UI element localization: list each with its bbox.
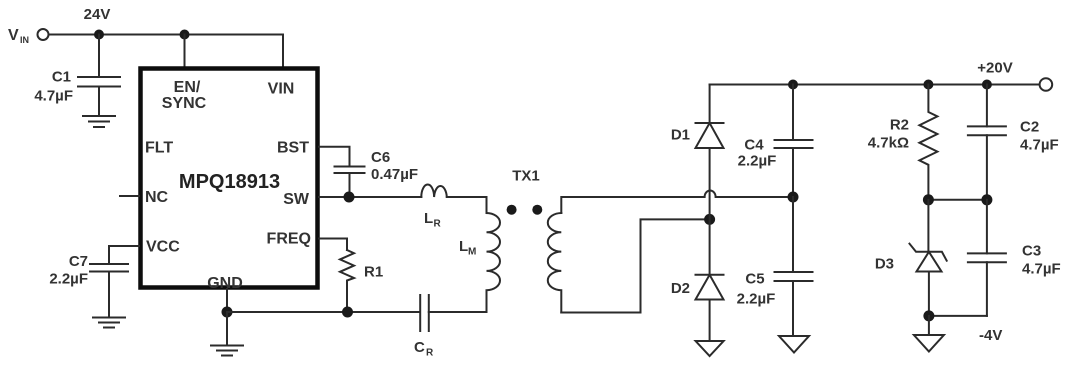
svg-text:D1: D1 <box>671 127 690 144</box>
svg-text:C3: C3 <box>1022 243 1041 260</box>
capacitor C1 <box>78 35 120 116</box>
svg-text:D3: D3 <box>875 256 894 273</box>
svg-text:D2: D2 <box>671 280 690 297</box>
svg-text:VCC: VCC <box>146 239 180 256</box>
svg-text:0.47µF: 0.47µF <box>371 166 418 183</box>
junction SW/C6 <box>344 192 355 203</box>
capacitor C4 <box>775 85 813 198</box>
junction D3/C3/-4V <box>923 310 934 321</box>
capacitor C6 <box>335 167 365 198</box>
svg-text:SW: SW <box>283 191 310 208</box>
junction rail/C4 <box>788 80 798 90</box>
terminal VIN input <box>38 29 49 40</box>
junction EN/SYNC tap <box>180 30 190 40</box>
svg-text:+20V: +20V <box>977 60 1012 77</box>
zener diode D3 <box>910 244 947 272</box>
phase dot secondary <box>532 205 542 215</box>
svg-text:TX1: TX1 <box>512 168 540 185</box>
pin label EN/SYNC <box>162 79 207 112</box>
svg-text:2.2µF: 2.2µF <box>738 153 777 170</box>
svg-text:EN/: EN/ <box>174 79 201 96</box>
svg-text:IN: IN <box>20 35 29 45</box>
wire -4V link <box>929 315 987 317</box>
junction GND node <box>222 307 233 318</box>
wire VCC <box>109 246 139 264</box>
junction R2/D3 <box>923 194 934 205</box>
svg-text:R: R <box>434 219 442 230</box>
capacitor C7 <box>90 264 128 317</box>
svg-text:R2: R2 <box>890 117 909 134</box>
svg-text:VIN: VIN <box>268 81 295 98</box>
svg-text:C2: C2 <box>1020 119 1039 136</box>
capacitor C5 <box>775 197 813 336</box>
wire SW to LR <box>319 196 421 198</box>
wire input rail <box>49 34 284 36</box>
wire D2 anode down <box>709 300 711 342</box>
resistor R1 <box>340 250 354 312</box>
svg-text:4.7µF: 4.7µF <box>1020 137 1059 154</box>
capacitor C2 <box>968 85 1006 200</box>
svg-text:C4: C4 <box>744 137 764 154</box>
junction C4/C5/secondary <box>788 192 799 203</box>
capacitor C3 <box>968 200 1006 316</box>
label LR <box>424 210 442 230</box>
label CR <box>414 339 434 359</box>
ground under GND pin <box>211 312 243 356</box>
svg-text:C7: C7 <box>69 253 88 270</box>
svg-text:R: R <box>426 348 434 359</box>
svg-text:V: V <box>8 27 19 44</box>
wire NC stub <box>120 195 139 197</box>
junction secondary to D1/D2 node <box>704 214 715 225</box>
junction rail/C2 <box>982 80 992 90</box>
op-amp U1 MPQ18913 IC body <box>141 69 318 288</box>
svg-text:2.2µF: 2.2µF <box>737 291 776 308</box>
ground under C1 <box>83 116 115 127</box>
svg-text:-4V: -4V <box>979 327 1002 344</box>
ground arrow at -4V <box>914 316 944 352</box>
diode D1 <box>696 123 724 148</box>
resistor R2 <box>919 85 937 200</box>
junction R1/GND/CR <box>342 307 353 318</box>
wire GND pin drop <box>226 289 228 312</box>
svg-text:NC: NC <box>145 189 169 206</box>
svg-text:C5: C5 <box>745 271 764 288</box>
wire GND rail to CR <box>227 311 419 313</box>
wire BST <box>319 147 350 167</box>
svg-text:SYNC: SYNC <box>162 95 207 112</box>
svg-text:C: C <box>414 339 425 356</box>
wire secondary top with hop <box>561 191 793 214</box>
svg-text:L: L <box>424 210 433 227</box>
junction 24V/C1 <box>94 30 104 40</box>
transformer TX1 primary winding LM <box>487 213 501 312</box>
svg-text:FLT: FLT <box>145 140 173 157</box>
svg-text:C6: C6 <box>371 149 390 166</box>
transformer TX1 secondary winding <box>548 213 562 313</box>
inductor LR <box>421 184 447 197</box>
wire LR to transformer primary <box>447 197 487 213</box>
wire +20V rail <box>710 84 1040 86</box>
node VIN label <box>8 27 29 45</box>
label LM <box>459 238 476 258</box>
wire D1 anode to node <box>709 148 711 275</box>
ground under C7 <box>93 318 125 328</box>
wire FREQ to R1 <box>319 239 347 251</box>
wire D3 anode down <box>928 272 930 316</box>
wire secondary bottom <box>561 219 709 312</box>
svg-text:BST: BST <box>277 140 309 157</box>
wire EN/SYNC drop <box>184 35 186 69</box>
svg-text:4.7µF: 4.7µF <box>1022 261 1061 278</box>
ground arrow under D2 <box>696 341 724 356</box>
svg-text:M: M <box>468 247 476 258</box>
svg-text:C1: C1 <box>52 69 71 86</box>
svg-text:24V: 24V <box>84 6 111 23</box>
ground arrow under C5 <box>779 336 809 353</box>
wire VIN drop <box>282 35 284 69</box>
wire R2 node to D3 <box>927 200 929 252</box>
wire R2/C2 bottom link <box>928 199 987 201</box>
terminal +20V output <box>1040 78 1053 91</box>
phase dot primary <box>507 205 517 215</box>
svg-text:4.7µF: 4.7µF <box>34 88 73 105</box>
wire D1 top to rail <box>709 85 711 124</box>
capacitor CR <box>420 295 486 331</box>
svg-text:L: L <box>459 238 468 255</box>
svg-text:MPQ18913: MPQ18913 <box>179 171 280 193</box>
svg-text:GND: GND <box>207 275 243 292</box>
junction C2/C3 <box>981 194 992 205</box>
svg-text:2.2µF: 2.2µF <box>49 271 88 288</box>
svg-text:R1: R1 <box>364 264 383 281</box>
junction rail/R2 <box>923 80 933 90</box>
svg-text:FREQ: FREQ <box>267 231 311 248</box>
svg-text:4.7kΩ: 4.7kΩ <box>868 135 909 152</box>
diode D2 <box>696 275 724 300</box>
